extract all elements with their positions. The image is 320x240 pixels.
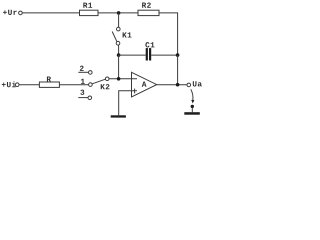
- resistor R2: [138, 2, 159, 15]
- switch K1: [112, 27, 131, 45]
- capacitor C1: [145, 42, 154, 60]
- resistor R1: [80, 3, 99, 16]
- wire non-inverting input: [119, 91, 137, 116]
- wire Ui to R: [19, 84, 39, 86]
- wire right rail lower: [177, 55, 179, 85]
- wire junction to K1: [118, 13, 120, 27]
- node junction C1 left: [117, 53, 121, 57]
- op-amp A: [132, 72, 157, 97]
- ground left: [111, 115, 126, 117]
- voltage arrow Ua: [191, 89, 195, 103]
- terminal Ua: [187, 81, 202, 86]
- node junction top: [117, 11, 121, 15]
- label K2: [101, 84, 110, 89]
- resistor R: [39, 77, 59, 88]
- switch K2 contact 2: [78, 66, 92, 75]
- node junction inverting input: [117, 77, 121, 81]
- wire C1 right: [151, 54, 177, 56]
- switch K2 contact 3: [78, 90, 91, 100]
- wire op-amp output: [157, 84, 187, 86]
- wire R to contact 1: [59, 84, 88, 86]
- wire C1 left: [119, 54, 146, 56]
- node junction output: [176, 83, 180, 87]
- node ground right: [191, 105, 194, 108]
- terminal +Ui: [2, 82, 19, 88]
- terminal +Ur: [3, 10, 22, 15]
- wire Ur to R1: [22, 12, 79, 14]
- switch K2 contact 1: [81, 79, 92, 87]
- wire pole to op-amp inverting input: [109, 78, 137, 80]
- switch K2 pole: [105, 77, 109, 81]
- wire to ground right: [191, 108, 193, 113]
- wire K2 column down: [118, 55, 120, 79]
- wire R2 to right rail: [159, 13, 178, 55]
- switch K2 lever: [92, 79, 105, 84]
- wire K1 to C1 row: [118, 45, 120, 55]
- wire R1 to R2: [98, 12, 138, 14]
- ground right: [184, 112, 200, 115]
- node junction C1 right: [176, 53, 180, 57]
